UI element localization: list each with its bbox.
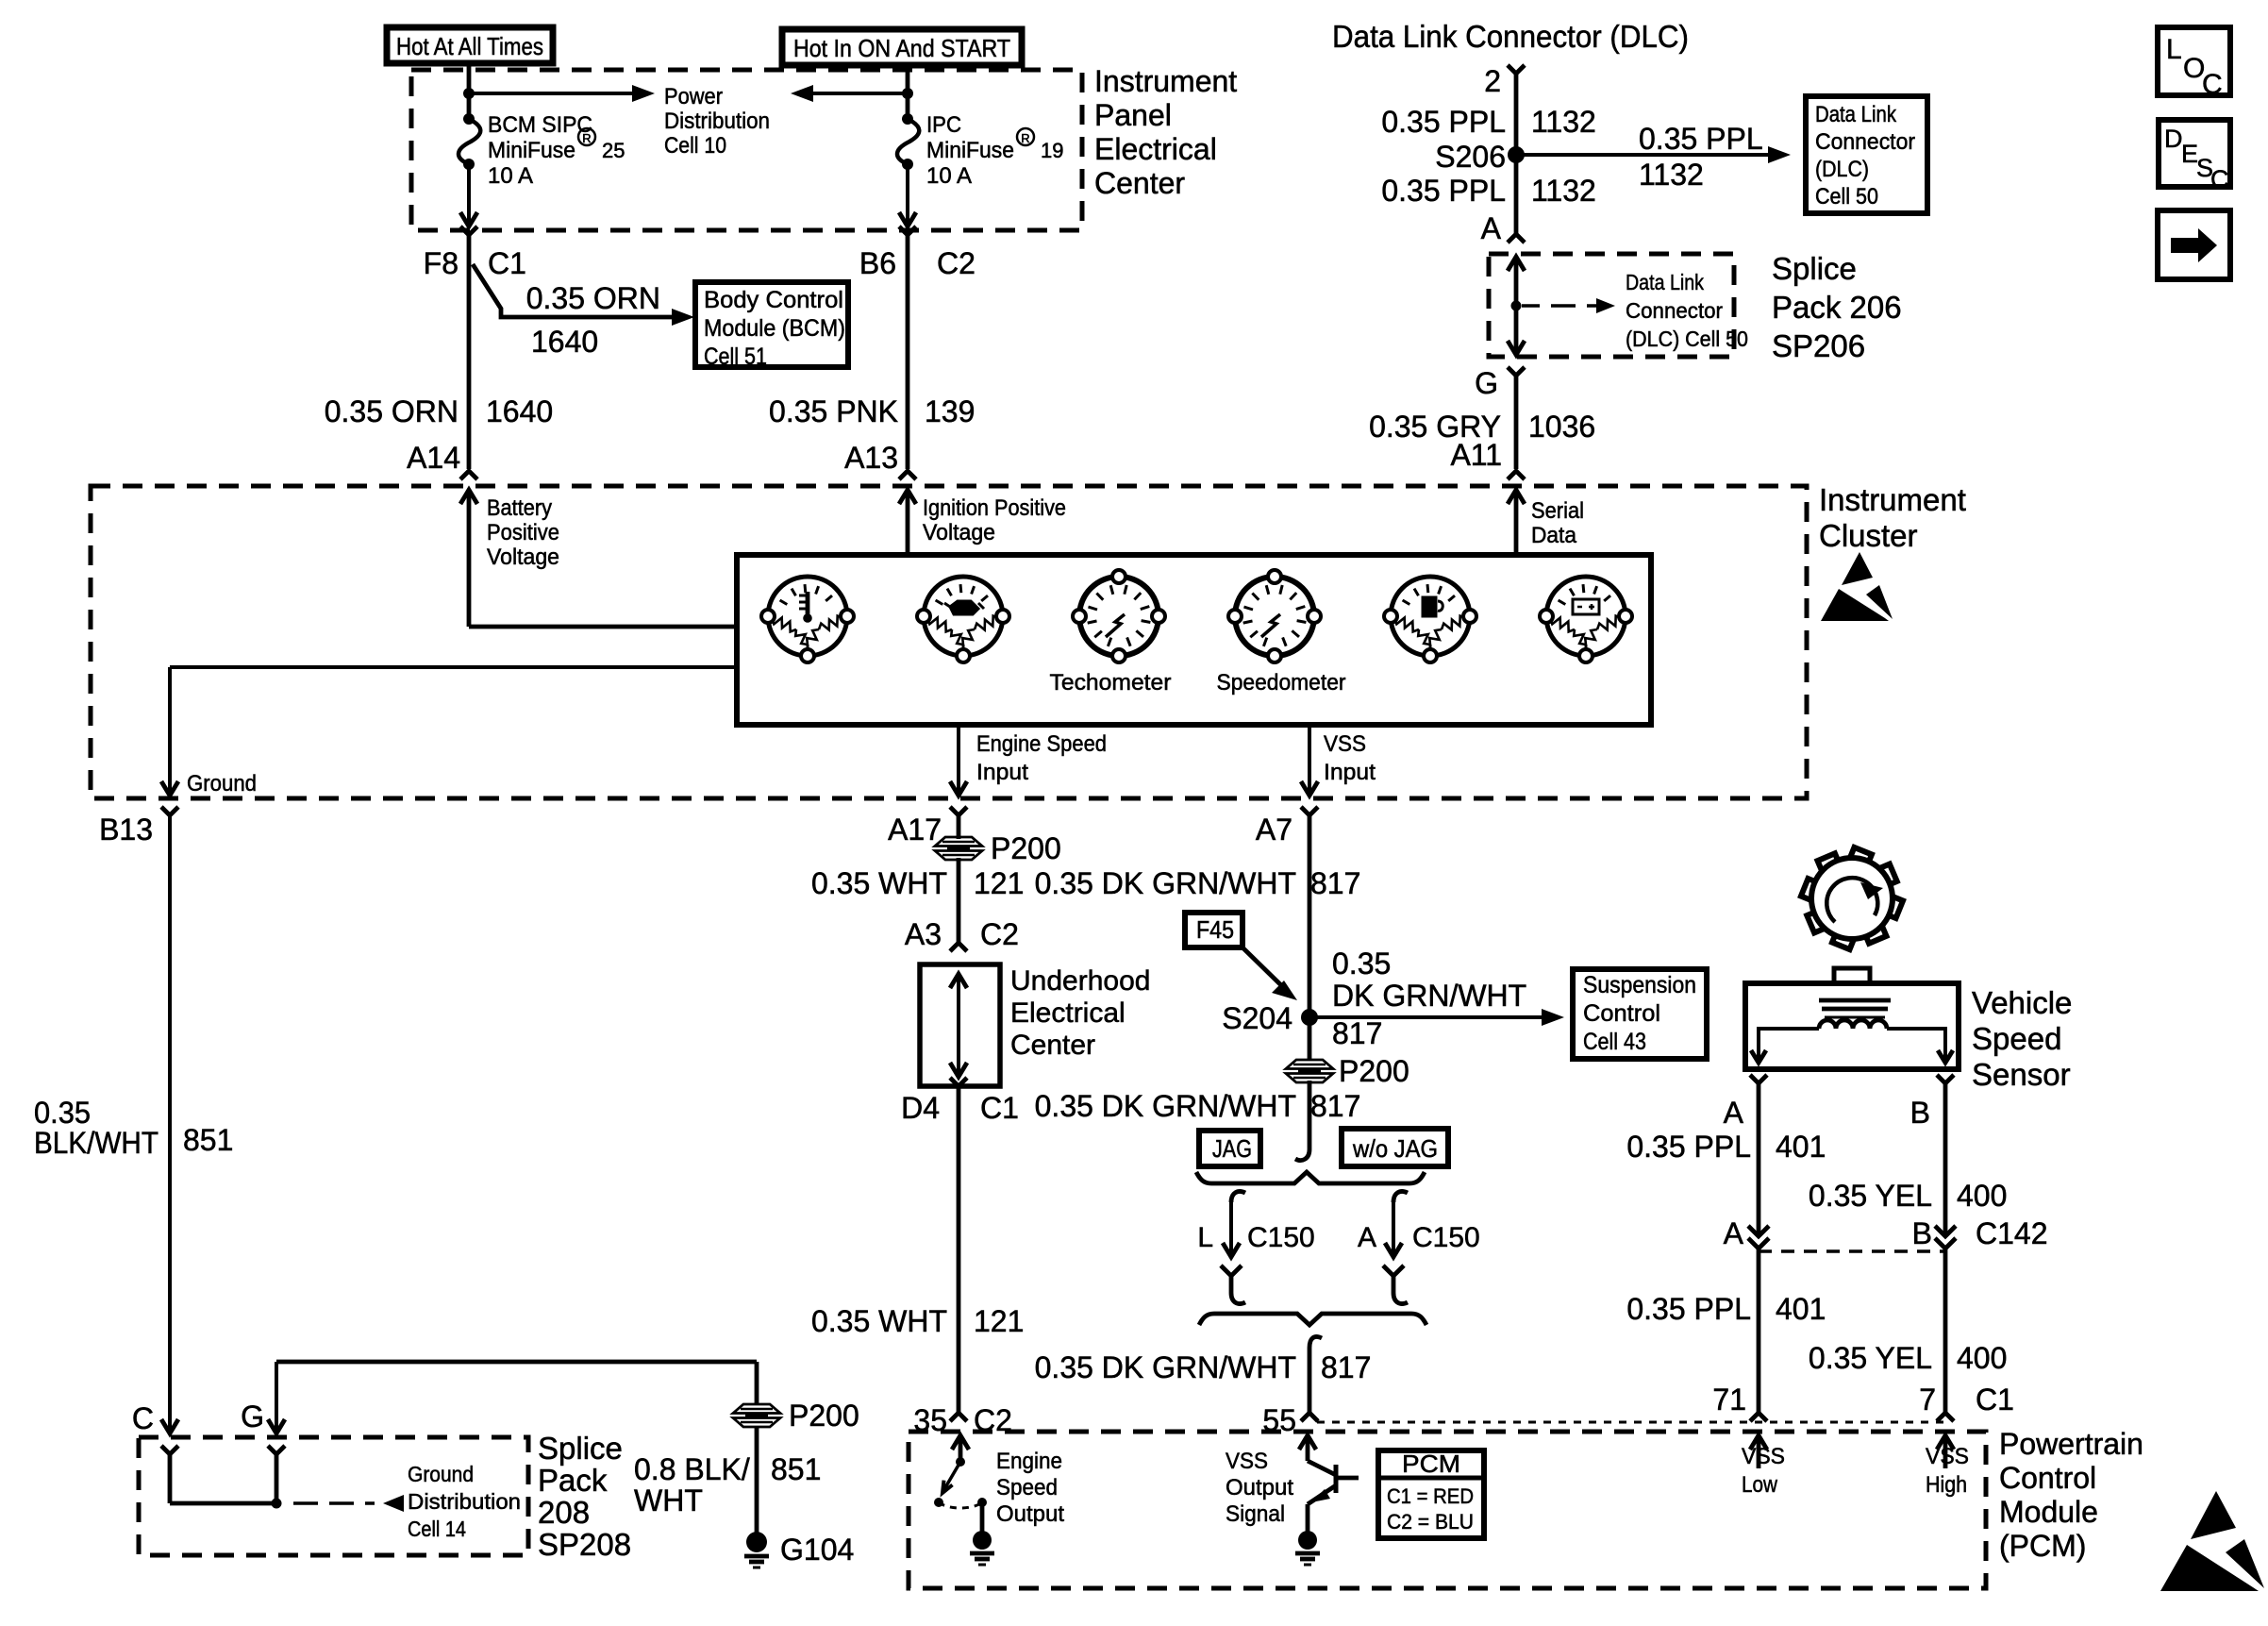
wire to P200 G104 [755,1362,759,1405]
svg-text:0.35 PPL: 0.35 PPL [1626,1292,1751,1326]
Body Control Module (BCM) Cell 51 box [695,282,848,367]
VSS input wire [1308,725,1311,796]
svg-text:Cluster: Cluster [1819,518,1918,553]
wire sensor B down [1943,1083,1948,1236]
svg-text:Output: Output [1226,1475,1293,1500]
svg-text:Power: Power [664,84,723,109]
svg-text:B13: B13 [99,813,153,847]
double arrow inside underhood box [950,974,967,988]
ground wire from cluster box [170,665,739,669]
switch node engine speed [956,1457,965,1467]
svg-text:121: 121 [974,1304,1024,1338]
svg-text:DK GRN/WHT: DK GRN/WHT [1332,979,1526,1013]
svg-text:D: D [2164,125,2183,153]
svg-text:0.35 PPL: 0.35 PPL [1381,174,1506,208]
svg-text:Cell 51: Cell 51 [704,344,767,370]
svg-text:Pack 206: Pack 206 [1772,290,1902,325]
w/o JAG branch hook top [1393,1191,1408,1202]
svg-text:Pack: Pack [538,1463,608,1498]
svg-text:C150: C150 [1247,1222,1315,1253]
svg-text:C150: C150 [1412,1222,1480,1253]
svg-text:Voltage: Voltage [487,545,559,570]
svg-text:Underhood: Underhood [1010,965,1150,997]
w/o JAG branch wire A C150 [1392,1202,1395,1257]
svg-text:1132: 1132 [1531,105,1596,139]
junction node on right feed [902,88,913,99]
svg-text:851: 851 [771,1452,821,1486]
Splice Pack 208 dashed box [139,1437,528,1555]
svg-text:Panel: Panel [1094,98,1172,132]
svg-text:F45: F45 [1196,915,1234,944]
svg-text:Data: Data [1531,523,1577,548]
svg-text:Engine: Engine [996,1449,1062,1474]
svg-text:C2: C2 [980,917,1019,951]
pass-through P200 (VSS) [1286,1060,1333,1069]
label box w/o JAG [1342,1129,1448,1166]
svg-text:0.35 PPL: 0.35 PPL [1381,105,1506,139]
svg-text:G104: G104 [780,1533,854,1567]
sensor coil [1819,1020,1887,1029]
splice bus wire SP208 [170,1501,276,1506]
svg-text:208: 208 [538,1495,590,1530]
svg-text:A11: A11 [1450,438,1502,472]
svg-text:1132: 1132 [1531,174,1596,208]
svg-text:Signal: Signal [1226,1501,1285,1527]
svg-text:0.35 ORN: 0.35 ORN [325,394,459,428]
svg-text:JAG: JAG [1212,1134,1252,1163]
svg-text:Body Control: Body Control [704,287,843,313]
svg-text:SP206: SP206 [1772,328,1865,363]
svg-text:Input: Input [1324,760,1376,785]
svg-text:Center: Center [1010,1030,1095,1061]
svg-text:C1: C1 [980,1091,1019,1125]
gauge tachometer [1079,577,1159,656]
wire transistor emitter to ground [1306,1504,1310,1532]
sensor core lines [1819,998,1891,1003]
wire from Hot At All Times to fuse [467,63,472,119]
svg-text:(DLC) Cell 50: (DLC) Cell 50 [1626,327,1748,351]
VSS sensor neck [1834,968,1870,983]
entry arrow A11 serial data [1508,490,1525,504]
Instrument Panel Electrical Center dashed box [411,70,1082,230]
svg-text:Center: Center [1094,166,1185,200]
Powertrain Control Module dashed box [909,1432,1986,1588]
svg-text:B: B [1910,1096,1930,1130]
svg-text:25: 25 [602,139,625,162]
wire A7 down to S204 [1308,815,1312,1017]
svg-text:MiniFuse: MiniFuse [488,138,575,163]
Suspension Control Cell 43 box [1573,969,1707,1059]
svg-text:WHT: WHT [634,1484,703,1517]
svg-text:Cell 14: Cell 14 [408,1517,466,1541]
svg-text:VSS: VSS [1926,1444,1969,1469]
svg-text:Vehicle: Vehicle [1972,985,2072,1020]
svg-text:817: 817 [1321,1350,1371,1384]
svg-text:G: G [241,1400,264,1433]
svg-text:0.35 DK GRN/WHT: 0.35 DK GRN/WHT [1035,1350,1296,1384]
wire B6 down to A13 [906,235,910,469]
wire G down to A11 [1514,376,1519,469]
arrow into splice pack 206 [1508,257,1525,271]
splice node SP208 [272,1499,282,1509]
JAG branch hook bottom [1231,1293,1245,1304]
VSS gear icon [1876,893,1903,918]
wire arrow to Power Distribution (left) [811,92,908,95]
svg-text:VSS: VSS [1226,1449,1268,1474]
entry arrow A13 ignition positive [899,490,916,504]
wire battery positive to cluster box [469,625,739,629]
svg-text:A: A [1481,211,1502,245]
svg-text:Low: Low [1742,1472,1778,1498]
svg-text:817: 817 [1332,1016,1382,1050]
wire fuse to F8 with arrow [467,164,471,226]
engine speed output arrow [952,1435,969,1450]
svg-text:SP208: SP208 [538,1527,631,1562]
svg-text:C2 = BLU: C2 = BLU [1387,1510,1474,1534]
svg-text:PCM: PCM [1402,1450,1460,1478]
fuse IPC MiniFuse 19 10 A [902,113,913,125]
svg-text:C1 = RED: C1 = RED [1387,1484,1474,1508]
ground G104 [746,1532,767,1552]
switch output node [977,1498,987,1507]
connector pin F8 C1 [460,226,477,235]
svg-text:L: L [1197,1222,1213,1253]
svg-text:71: 71 [1712,1383,1746,1416]
wire B13 down to splice pack 208 [168,815,172,1433]
svg-text:817: 817 [1310,1089,1360,1123]
wire B to PCM 7 [1943,1249,1948,1413]
svg-text:Data Link: Data Link [1815,102,1897,127]
junction node on left feed [463,88,475,99]
svg-text:Sensor: Sensor [1972,1057,2071,1092]
splice S206 [1508,146,1525,163]
svg-text:121: 121 [974,866,1024,900]
wire sensor A down [1757,1083,1761,1236]
Data Link Connector (DLC) Cell 50 box [1806,96,1927,213]
svg-text:B: B [1912,1216,1932,1250]
svg-text:D4: D4 [901,1091,940,1125]
svg-text:P200: P200 [789,1399,859,1433]
svg-text:VSS: VSS [1324,731,1366,757]
svg-text:A14: A14 [407,441,460,475]
svg-text:Control: Control [1583,1000,1660,1027]
svg-text:2: 2 [1484,64,1501,98]
svg-text:Speed: Speed [996,1475,1058,1500]
svg-text:0.35 PPL: 0.35 PPL [1639,122,1763,156]
svg-text:A: A [1358,1222,1376,1253]
power feed label box Hot In ON And START [782,29,1022,65]
svg-text:A17: A17 [888,813,942,847]
legend box arrow [2158,210,2230,279]
svg-text:0.35 YEL: 0.35 YEL [1809,1179,1932,1213]
wire fuse to B6 with arrow [906,164,909,226]
svg-text:Speedometer: Speedometer [1217,670,1346,696]
svg-text:Splice: Splice [538,1431,623,1466]
Instrument Cluster dashed box [91,486,1807,798]
svg-text:P200: P200 [991,831,1061,865]
svg-text:IPC: IPC [926,112,961,138]
svg-text:Electrical: Electrical [1094,132,1217,166]
svg-text:0.35 ORN: 0.35 ORN [526,281,660,315]
svg-text:Module (BCM): Module (BCM) [704,315,845,342]
wire DLC pin 2 to S206 [1514,74,1519,155]
svg-text:High: High [1926,1472,1967,1498]
svg-text:Ground: Ground [187,771,257,796]
sensor internal wires [1759,1029,1819,1063]
svg-text:(PCM): (PCM) [1999,1529,2086,1563]
wire end hook [1295,1149,1309,1161]
svg-text:0.35: 0.35 [34,1096,91,1130]
svg-text:Powertrain: Powertrain [1999,1427,2143,1461]
ground inside PCM (engine speed) [973,1531,992,1550]
connector pin G below SP206 [1508,367,1525,376]
branch wire to BCM [473,264,674,317]
svg-text:A7: A7 [1256,813,1292,847]
ESD symbol instrument cluster [1842,552,1873,585]
connector pin B13 [161,807,178,815]
wire from Hot In ON And START to fuse [906,65,910,119]
svg-text:Suspension: Suspension [1583,972,1696,998]
svg-text:A: A [1724,1096,1744,1130]
svg-text:A: A [1724,1216,1744,1250]
svg-text:C: C [2202,69,2223,100]
connector pin B below sensor [1937,1075,1954,1083]
svg-text:C: C [132,1401,154,1435]
svg-text:851: 851 [183,1123,233,1157]
arrow F45 to S204 [1242,947,1283,987]
wire arrow S204 to Suspension Control [1309,1015,1543,1019]
overbrace options split [1196,1172,1425,1183]
svg-text:(DLC): (DLC) [1815,157,1869,182]
svg-text:Hot At All Times: Hot At All Times [396,32,543,60]
svg-text:L: L [2166,34,2182,65]
underbrace options merge [1199,1314,1426,1325]
svg-text:0.35 DK GRN/WHT: 0.35 DK GRN/WHT [1035,1089,1296,1123]
svg-text:401: 401 [1776,1130,1826,1164]
fuse BCM SIPC MiniFuse 25 10 A [463,113,475,125]
connector pin A17 [950,807,967,815]
engine speed input wire [957,725,960,796]
svg-text:C142: C142 [1976,1216,2048,1250]
svg-text:R: R [1021,131,1029,145]
power feed label box Hot At All Times [387,27,553,63]
svg-text:BLK/WHT: BLK/WHT [34,1126,158,1160]
Vehicle Speed Sensor box [1745,983,1959,1069]
wire D4 down to PCM pin 35 [957,1086,961,1413]
svg-text:0.35 WHT: 0.35 WHT [811,1304,947,1338]
svg-text:10 A: 10 A [488,163,533,189]
dashed arrow to Ground Distribution [293,1501,318,1505]
Underhood Electrical Center box [920,964,1000,1086]
entry arrow PCM pin 7 [1937,1435,1954,1450]
entry arrow PCM pin 71 [1750,1435,1767,1450]
wire F8 down to A14 [467,235,472,469]
connector pin A7 [1301,807,1318,815]
svg-text:Instrument: Instrument [1819,482,1966,517]
svg-text:Engine Speed: Engine Speed [976,731,1107,757]
fine dashed connector line C1/C2 at PCM [1317,1421,1945,1424]
svg-text:0.35 YEL: 0.35 YEL [1809,1341,1932,1375]
JAG branch wire L C150 [1229,1202,1233,1257]
svg-text:Module: Module [1999,1495,2098,1529]
dashed connector line C142 [1759,1249,1945,1253]
ESD symbol PCM [2191,1491,2236,1539]
svg-text:Ignition Positive: Ignition Positive [923,495,1066,521]
svg-text:0.35 PNK: 0.35 PNK [769,394,898,428]
svg-text:w/o JAG: w/o JAG [1352,1134,1438,1163]
svg-text:Distribution: Distribution [664,109,770,134]
svg-text:400: 400 [1957,1179,2007,1213]
gauge battery voltmeter [1546,577,1626,656]
svg-text:Techometer: Techometer [1050,670,1172,696]
svg-text:Instrument: Instrument [1094,64,1237,98]
VSS output arrow collector [1299,1435,1316,1450]
svg-text:7: 7 [1919,1383,1936,1416]
svg-text:F8: F8 [424,246,459,280]
svg-text:S206: S206 [1435,140,1506,174]
svg-text:P200: P200 [1339,1054,1409,1088]
splice S204 [1301,1009,1318,1026]
svg-text:Cell 50: Cell 50 [1815,184,1878,210]
svg-text:C1: C1 [488,246,526,280]
svg-text:0.35 DK GRN/WHT: 0.35 DK GRN/WHT [1035,866,1296,900]
svg-text:Data Link: Data Link [1626,270,1704,294]
wire P200 to G104 [755,1426,759,1533]
svg-text:817: 817 [1310,866,1360,900]
svg-text:Hot In ON And START: Hot In ON And START [793,34,1010,62]
svg-text:Battery: Battery [487,495,552,521]
wire arrow S206 to DLC Cell 50 box [1516,153,1770,157]
svg-text:S204: S204 [1222,1001,1292,1035]
wire merge hook [1309,1336,1322,1348]
switch contact node [934,1498,943,1507]
entry arrow A14 battery positive [460,490,477,504]
svg-text:Electrical: Electrical [1010,997,1126,1029]
svg-text:Cell 43: Cell 43 [1583,1029,1646,1055]
svg-text:Voltage: Voltage [923,520,995,545]
svg-text:400: 400 [1957,1341,2007,1375]
wire P200 to A3 [957,858,961,943]
dashed switch linkage [939,1502,982,1508]
svg-text:1036: 1036 [1528,410,1595,444]
gauge oil pressure [924,577,1003,656]
svg-text:VSS: VSS [1742,1444,1785,1469]
wire arrow to Power Distribution Cell 10 [469,92,634,95]
pass-through P200 (engine speed) [935,837,982,847]
svg-text:Output: Output [996,1501,1064,1527]
svg-text:Connector: Connector [1815,129,1915,155]
svg-text:0.35 PPL: 0.35 PPL [1626,1130,1751,1164]
svg-text:Distribution: Distribution [408,1489,521,1514]
svg-text:A13: A13 [844,441,898,475]
splice node in SP206 [1511,301,1522,311]
connector pin A below sensor [1750,1075,1767,1083]
svg-text:Splice: Splice [1772,251,1857,286]
label box F45 [1185,913,1242,947]
svg-text:G: G [1475,366,1498,400]
wire A17 to P200 [957,815,961,839]
svg-text:19: 19 [1041,139,1063,162]
ground inside PCM (VSS output) [1298,1531,1317,1550]
ground distribution wire G [275,1362,278,1433]
wire S206 down to splice pack [1514,155,1519,234]
svg-text:Input: Input [976,760,1028,785]
svg-text:139: 139 [925,394,975,428]
svg-text:10 A: 10 A [926,163,972,189]
svg-text:C2: C2 [937,246,976,280]
arrow out of splice pack 206 [1508,341,1525,355]
switch lever engine speed [944,1462,960,1489]
svg-text:0.35 WHT: 0.35 WHT [811,866,947,900]
svg-text:1640: 1640 [531,325,598,359]
gauge fuel [1391,577,1470,656]
svg-text:401: 401 [1776,1292,1826,1326]
svg-text:Serial: Serial [1531,498,1584,524]
legend box LOC [2158,27,2230,95]
svg-text:Cell 10: Cell 10 [664,133,726,159]
legend box DESC [2159,120,2230,187]
transistor Q VSS output [1308,1461,1336,1475]
svg-text:MiniFuse: MiniFuse [926,138,1014,163]
JAG branch hook top [1231,1191,1245,1202]
wire to ground engine speed [980,1502,985,1533]
w/o JAG branch hook bottom [1393,1293,1408,1304]
PCM legend box [1378,1450,1484,1538]
dashed arrow to Data Link Connector text [1522,304,1540,308]
connector fork C inside SP208 [161,1446,178,1454]
svg-text:B6: B6 [859,246,896,280]
pass-through P200 (ground) [733,1404,780,1414]
wire P200 down to JAG branch [1308,1081,1312,1149]
svg-text:A3: A3 [905,917,942,951]
svg-text:1132: 1132 [1639,158,1704,192]
svg-text:Control: Control [1999,1461,2096,1495]
svg-text:Positive: Positive [487,520,559,545]
label box JAG [1199,1131,1260,1166]
svg-text:C1: C1 [1976,1383,2014,1416]
svg-text:0.35: 0.35 [1332,947,1391,981]
gear rotation arrow [1826,878,1877,922]
svg-text:Data Link Connector (DLC): Data Link Connector (DLC) [1332,19,1689,54]
connector fork G inside SP208 [268,1446,285,1454]
connector pin B6 C2 [899,226,916,235]
wire S204 to P200 [1308,1017,1312,1061]
svg-text:1640: 1640 [486,394,553,428]
instrument cluster gauges box [737,555,1651,725]
svg-text:Connector: Connector [1626,298,1723,323]
wire A to PCM 71 [1757,1249,1761,1413]
svg-text:R: R [582,131,591,145]
svg-text:Speed: Speed [1972,1021,2061,1056]
Splice Pack 206 dashed box [1489,254,1734,357]
gauge temperature [768,577,847,656]
svg-text:Ground: Ground [408,1462,474,1486]
wire merge down to PCM pin 55 [1308,1348,1312,1413]
svg-text:0.8 BLK/: 0.8 BLK/ [634,1452,750,1486]
gauge speedometer [1235,577,1314,656]
svg-text:C: C [2210,165,2229,193]
svg-text:BCM SIPC: BCM SIPC [488,112,592,138]
